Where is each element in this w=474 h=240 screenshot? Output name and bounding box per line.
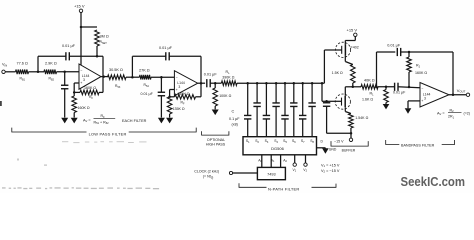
- svg-text:0.01 μF: 0.01 μF: [387, 44, 401, 48]
- svg-text:SeekIC.com: SeekIC.com: [401, 174, 466, 189]
- svg-text:−15 V: −15 V: [334, 140, 344, 144]
- svg-text:EACH FILTER: EACH FILTER: [122, 119, 147, 123]
- svg-text:+15 V: +15 V: [347, 28, 358, 33]
- svg-text:3: 3: [424, 96, 426, 100]
- svg-text:160K Ω: 160K Ω: [78, 106, 90, 110]
- svg-text:LOW PASS FILTER: LOW PASS FILTER: [89, 131, 127, 136]
- svg-text:0.01 μF: 0.01 μF: [159, 46, 173, 50]
- svg-text:0.01 μF: 0.01 μF: [393, 90, 406, 94]
- svg-text:(x8): (x8): [232, 122, 238, 126]
- svg-text:40K Ω: 40K Ω: [364, 78, 375, 82]
- svg-text:390K Ω: 390K Ω: [222, 76, 234, 80]
- svg-text:27K Ω: 27K Ω: [139, 69, 150, 73]
- svg-text:BUFFER: BUFFER: [342, 149, 356, 153]
- svg-text:0.01 μF: 0.01 μF: [204, 73, 218, 77]
- svg-text:1.54K Ω: 1.54K Ω: [355, 116, 368, 120]
- svg-text:77.6 Ω: 77.6 Ω: [17, 62, 28, 66]
- svg-text:C: C: [232, 110, 235, 114]
- svg-text:−: −: [80, 69, 82, 73]
- svg-text:3M Ω: 3M Ω: [100, 35, 109, 39]
- svg-text:HIGH PASS: HIGH PASS: [206, 143, 226, 147]
- svg-text:7493: 7493: [267, 172, 275, 176]
- svg-text:0.01 μF: 0.01 μF: [62, 44, 76, 48]
- svg-text:0.01 μF: 0.01 μF: [141, 92, 154, 96]
- svg-text:BANDPASS FILTER: BANDPASS FILTER: [401, 143, 435, 147]
- svg-text:160K Ω: 160K Ω: [415, 71, 427, 75]
- svg-text:0.1 μF: 0.1 μF: [229, 117, 240, 121]
- svg-text:30.5K Ω: 30.5K Ω: [109, 68, 123, 72]
- svg-text:160K Ω: 160K Ω: [84, 86, 96, 90]
- svg-text:DG506: DG506: [271, 146, 284, 151]
- svg-text:100K Ω: 100K Ω: [219, 94, 231, 98]
- svg-text:F402: F402: [351, 45, 359, 49]
- svg-text:−: −: [421, 87, 423, 91]
- svg-text:(=2): (=2): [464, 111, 471, 115]
- svg-text:1.5K Ω: 1.5K Ω: [332, 71, 343, 75]
- svg-text:+: +: [80, 81, 82, 85]
- svg-text:135K Ω: 135K Ω: [177, 92, 189, 96]
- svg-text:GND: GND: [329, 147, 337, 151]
- svg-text:135K Ω: 135K Ω: [173, 107, 185, 111]
- svg-text:+: +: [421, 99, 423, 103]
- svg-text:−: −: [176, 75, 178, 79]
- svg-text:2.9K Ω: 2.9K Ω: [45, 62, 57, 66]
- svg-text:+: +: [176, 88, 178, 92]
- svg-text:3: 3: [83, 78, 85, 82]
- svg-text:1.6K Ω: 1.6K Ω: [362, 97, 373, 101]
- svg-text:3: 3: [178, 85, 180, 89]
- svg-text:OPTIONAL: OPTIONAL: [207, 138, 225, 142]
- svg-text:N-PATH FILTER: N-PATH FILTER: [268, 186, 300, 191]
- svg-text:+15 V: +15 V: [74, 4, 85, 9]
- svg-text:CLOCK (2 kHz): CLOCK (2 kHz): [194, 169, 219, 173]
